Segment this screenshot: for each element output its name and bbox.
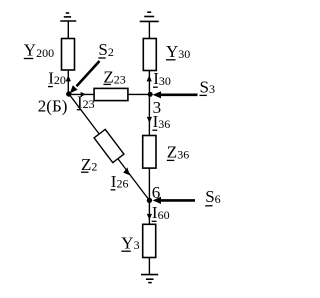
resistor Y30 bbox=[143, 39, 156, 71]
resistor Z23 bbox=[94, 88, 128, 100]
wire Z36 to node 6 bbox=[148, 168, 150, 200]
svg-text:Y30: Y30 bbox=[166, 42, 190, 61]
resistor Z2 (rotated) bbox=[94, 129, 124, 162]
svg-text:S2: S2 bbox=[98, 40, 113, 59]
resistor Y3 bbox=[143, 224, 156, 257]
resistor Y200 bbox=[62, 39, 75, 71]
ground (node 0, top-right) bbox=[140, 12, 159, 21]
ground (node 0, bottom) bbox=[141, 275, 158, 283]
svg-text:S6: S6 bbox=[205, 187, 220, 206]
wire ground to Y200 bbox=[67, 21, 69, 39]
wire node 3 to Z36 bbox=[148, 94, 150, 135]
node 2 junction bbox=[66, 91, 71, 96]
svg-text:Y200: Y200 bbox=[24, 41, 54, 60]
svg-text:Z2: Z2 bbox=[81, 155, 97, 174]
current arrow I30 (up) bbox=[147, 75, 152, 81]
svg-text:I60: I60 bbox=[152, 203, 170, 222]
svg-text:I20: I20 bbox=[48, 68, 66, 87]
svg-text:Z36: Z36 bbox=[167, 143, 189, 162]
current arrow I20 (up) bbox=[66, 75, 71, 81]
svg-text:I30: I30 bbox=[153, 69, 171, 88]
wire Y200 to node 2 bbox=[67, 70, 69, 94]
current arrow I26 (down-right on diagonal) bbox=[123, 168, 130, 176]
current arrow I36 (down) bbox=[147, 117, 152, 123]
current arrow I23 (right) bbox=[81, 92, 86, 97]
wire Y3 to ground bbox=[148, 258, 150, 275]
svg-text:2(Б): 2(Б) bbox=[38, 96, 68, 115]
source arrow S6 bbox=[153, 197, 195, 204]
node 3 junction bbox=[148, 92, 153, 97]
svg-text:Y3: Y3 bbox=[121, 233, 139, 252]
wire node 6 to Y3 bbox=[148, 200, 150, 224]
current arrow I60 (down) bbox=[147, 214, 152, 220]
source arrow S2 bbox=[70, 61, 100, 93]
wire ground to Y30 bbox=[148, 21, 150, 38]
svg-text:S3: S3 bbox=[200, 77, 215, 96]
wire Y30 to node 3 bbox=[148, 71, 150, 95]
diagonal wire node 2 to node 6 bbox=[69, 94, 150, 201]
node 6 junction bbox=[147, 198, 152, 203]
resistor Z36 bbox=[143, 136, 156, 169]
wire node 2 to node 3 bbox=[68, 93, 150, 95]
svg-text:I26: I26 bbox=[111, 172, 129, 191]
source arrow S3 bbox=[153, 91, 198, 98]
ground (node 0, top-left) bbox=[60, 13, 76, 21]
svg-text:I36: I36 bbox=[153, 112, 171, 131]
